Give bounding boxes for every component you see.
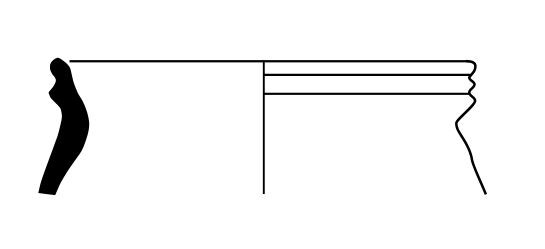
second rim band line bbox=[264, 74, 471, 76]
third rim band line bbox=[264, 93, 470, 95]
section profile (filled black rim cross-section) bbox=[39, 58, 89, 194]
axis / break vertical line bbox=[263, 60, 265, 194]
rim top line bbox=[70, 60, 469, 62]
exterior edge (lip, ridges, wall) bbox=[456, 61, 486, 194]
